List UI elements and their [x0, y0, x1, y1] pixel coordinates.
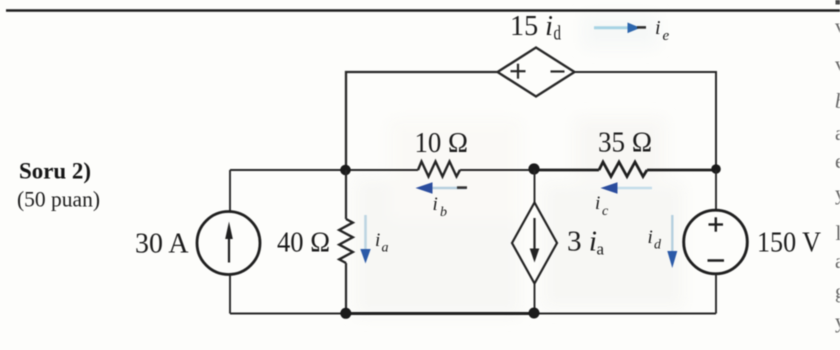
label ic	[595, 193, 609, 219]
svg-text:i: i	[655, 17, 661, 39]
resistor R3 35ohm (horizontal, bold)	[599, 162, 647, 177]
dependent source E1 diamond (15 id)	[498, 48, 575, 97]
wire: 3ia branch lower lead	[534, 284, 536, 314]
svg-text:b: b	[835, 89, 840, 113]
node E junction dot	[529, 308, 540, 319]
current arrow ia (blue, pointing down)	[360, 215, 370, 264]
wire: 40ohm branch lower lead	[345, 263, 347, 314]
label ia	[375, 230, 389, 256]
label 3 ia	[567, 226, 604, 259]
current source I1 30A	[197, 212, 260, 275]
svg-text:a: a	[597, 240, 605, 259]
label ib	[433, 194, 448, 220]
node C junction dot	[711, 164, 721, 174]
label 30 A	[135, 228, 189, 260]
svg-text:y: y	[835, 309, 840, 333]
svg-text:i: i	[375, 230, 380, 251]
wire: top rail left segment (node A up-corner to diamond left tip)	[346, 72, 497, 170]
svg-text:a: a	[835, 249, 840, 273]
right margin clipped letter fragments	[835, 0, 840, 333]
current arrow ic (blue, pointing left)	[601, 182, 653, 193]
resistor R1 40ohm (vertical)	[339, 219, 353, 263]
svg-text:v: v	[835, 52, 840, 76]
svg-text:40 Ω: 40 Ω	[277, 227, 330, 259]
node A junction dot	[340, 165, 351, 176]
current arrow ib (blue, pointing left)	[416, 182, 468, 193]
svg-text:i: i	[595, 193, 600, 214]
svg-text:Soru 2): Soru 2)	[19, 159, 91, 185]
svg-text:y: y	[835, 181, 840, 205]
svg-text:g: g	[835, 279, 840, 303]
svg-text:15 i: 15 i	[510, 10, 553, 42]
svg-text:i: i	[648, 227, 653, 248]
label id	[648, 227, 663, 253]
wire: bottom rail right segment	[534, 313, 716, 315]
svg-text:e: e	[835, 149, 840, 173]
label Soru 2)	[19, 159, 91, 185]
wire: left branch lower (30A source to bottom corner)	[229, 275, 231, 314]
dependent current source F1 diamond (3 ia, arrow down)	[512, 203, 557, 284]
scan shading patches	[355, 14, 683, 316]
voltage source V1 150V	[684, 210, 748, 274]
wire: middle rail 10ohm to node B	[460, 169, 534, 171]
label 150 V	[757, 227, 821, 259]
resistor R2 10ohm (horizontal)	[418, 162, 460, 177]
label 15 id	[510, 10, 561, 45]
svg-text:10 Ω: 10 Ω	[415, 127, 469, 159]
svg-text:l: l	[836, 221, 840, 245]
label (50 puan)	[17, 187, 100, 212]
wire: middle rail node A to 10ohm resistor	[346, 169, 418, 171]
node B junction dot	[528, 163, 539, 174]
wire: top rail right segment (diamond right tip to right corner)	[575, 72, 717, 170]
wire: middle rail 35ohm to node C (bold)	[647, 169, 716, 172]
label 10 ohm	[415, 127, 469, 159]
svg-text:d: d	[554, 23, 562, 45]
node D junction dot	[340, 308, 351, 319]
svg-text:b: b	[440, 205, 447, 220]
svg-text:150 V: 150 V	[757, 227, 821, 259]
label 40 ohm	[277, 227, 330, 259]
wire: middle rail from left corner to node A	[230, 169, 346, 171]
label 35 ohm	[598, 127, 652, 159]
wire: right branch upper (node C to 150V source)	[715, 170, 717, 211]
wire: bottom rail left segment	[230, 313, 346, 315]
svg-text:3 i: 3 i	[567, 226, 597, 258]
wire: middle rail node B to 35ohm (bold)	[534, 169, 599, 172]
label ie	[655, 17, 670, 44]
svg-text:d: d	[654, 238, 662, 253]
svg-text:30 A: 30 A	[135, 228, 189, 260]
wire: left branch upper (corner to 30A source)	[229, 170, 231, 212]
current arrow id (blue, pointing down)	[667, 215, 677, 268]
wire: right branch lower (150V source to bottom corner)	[715, 274, 717, 314]
current arrow ie (blue, pointing right)	[594, 23, 646, 34]
svg-text:e: e	[663, 28, 670, 44]
wire: 40ohm branch upper lead	[345, 170, 347, 219]
wire: 3ia branch upper lead	[534, 170, 536, 203]
svg-text:a: a	[835, 121, 840, 145]
svg-text:i: i	[433, 194, 438, 215]
top horizontal rule	[6, 9, 840, 12]
svg-text:c: c	[602, 204, 609, 219]
svg-text:(50 puan): (50 puan)	[17, 187, 100, 212]
svg-text:35 Ω: 35 Ω	[598, 127, 652, 159]
svg-text:v: v	[835, 14, 840, 38]
wire: bottom rail middle segment (bold)	[346, 312, 534, 315]
svg-text:a: a	[382, 241, 389, 256]
